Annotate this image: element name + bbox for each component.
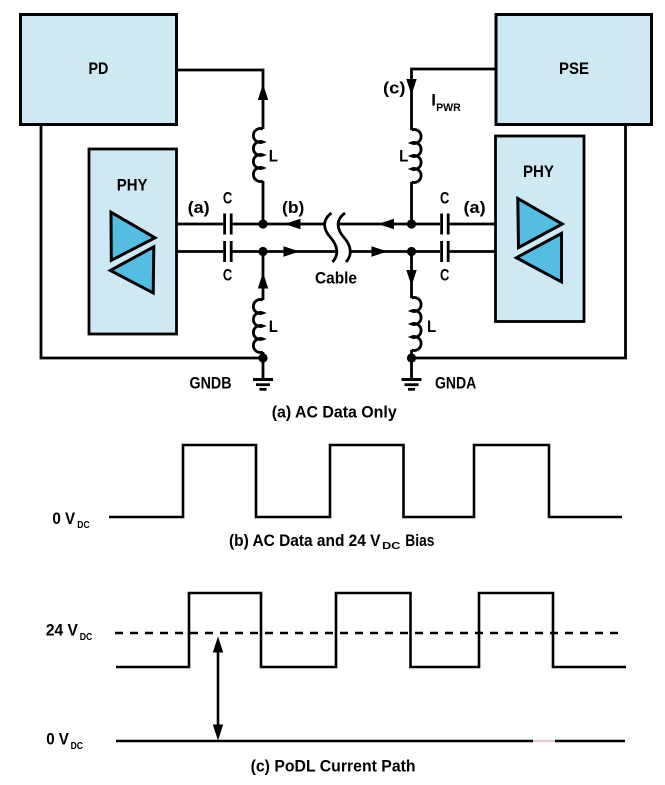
wire PD to top-left inductor — [177, 70, 264, 129]
cable break sinuous line 1 — [325, 213, 337, 262]
wire node B2 down to bottom-left inductor — [262, 252, 265, 301]
wire C4 to PHY(PSE) — [450, 250, 496, 253]
current arrow left (top right wire) — [378, 219, 394, 229]
junction node B2 — [258, 247, 267, 256]
svg-text:0 V: 0 V — [52, 509, 75, 528]
svg-text:GNDB: GNDB — [190, 374, 232, 393]
svg-text:(c): (c) — [383, 79, 406, 98]
wire PSE return loop to GNDA — [412, 125, 626, 359]
svg-text:DC: DC — [382, 540, 401, 552]
svg-text:L: L — [399, 147, 408, 166]
current arrow right (bottom right wire) — [372, 246, 388, 256]
svg-text:L: L — [269, 317, 278, 336]
svg-text:DC: DC — [80, 631, 93, 643]
svg-text:C: C — [223, 189, 232, 208]
waveform c: biased square wave trace — [116, 593, 626, 667]
capacitor C3 (PSE top data) — [442, 214, 449, 235]
waveform c: 0 VDC baseline — [116, 740, 625, 743]
wire cable to capacitor C3 (top data line right) — [338, 223, 441, 226]
svg-text:(b) AC Data and 24 V: (b) AC Data and 24 V — [229, 531, 381, 550]
svg-text:(a): (a) — [464, 198, 486, 217]
svg-text:PWR: PWR — [436, 102, 461, 114]
dimension arrow 24V bias (double headed) — [213, 637, 223, 741]
wire PD return loop to GNDB — [41, 125, 263, 358]
block PHY (PSE side) — [496, 136, 585, 322]
buffer triangle (PSE PHY, receive) — [516, 233, 561, 282]
ground GNDB — [253, 358, 273, 389]
junction node GNDB — [258, 353, 267, 362]
wire node A2 down to bottom-right inductor — [410, 252, 413, 299]
wire PSE to top-right inductor — [412, 69, 496, 130]
capacitor C1 (PD top data) — [225, 214, 232, 235]
svg-text:(a) AC Data Only: (a) AC Data Only — [272, 403, 397, 422]
inductor L4 (PSE bottom) — [412, 298, 422, 351]
svg-text:PD: PD — [89, 59, 109, 78]
svg-text:GNDA: GNDA — [435, 374, 476, 393]
waveform b: AC square wave trace — [109, 445, 622, 517]
svg-text:(b): (b) — [282, 198, 304, 217]
svg-text:C: C — [440, 265, 449, 284]
junction node GNDA — [407, 353, 416, 362]
wire L4 to node GNDA — [410, 350, 413, 358]
current arrow up (PD feed) — [258, 84, 268, 100]
wire C2 to cable break (bottom, through node B2) — [233, 250, 336, 253]
junction node A1 — [407, 219, 416, 228]
block PSE — [496, 15, 652, 125]
svg-text:PSE: PSE — [559, 59, 589, 78]
wire C1 to cable break (top, through node B1) — [233, 223, 324, 226]
current arrow down IPWR — [406, 79, 416, 95]
inductor L1 (PD top) — [253, 129, 263, 182]
svg-text:DC: DC — [71, 740, 84, 752]
junction node A2 — [407, 247, 416, 256]
cable break sinuous line 2 — [338, 213, 350, 262]
current arrow left (top left wire) — [285, 219, 301, 229]
wire PHY(PD) to capacitor C2 (bottom data line) — [177, 250, 224, 253]
wire L1 to node B1 — [262, 181, 265, 224]
buffer triangle (PD PHY, receive) — [110, 247, 154, 293]
svg-text:(a): (a) — [188, 198, 210, 217]
wire cable to capacitor C4 (bottom data line right) — [350, 250, 440, 253]
junction node B1 — [258, 219, 267, 228]
wire L3 to node GNDB — [262, 352, 265, 358]
svg-text:L: L — [269, 147, 278, 166]
wire C3 to PHY(PSE) — [450, 223, 496, 226]
current arrow right (bottom left wire) — [284, 246, 300, 256]
svg-text:Cable: Cable — [315, 268, 357, 287]
block PHY (PD side) — [89, 149, 177, 334]
svg-text:24 V: 24 V — [46, 621, 79, 640]
waveform c: 24 VDC dashed reference line — [115, 632, 621, 635]
buffer triangle (PSE PHY, transmit) — [518, 199, 562, 248]
current arrow down (to GNDA) — [406, 270, 416, 286]
buffer triangle (PD PHY, transmit) — [111, 212, 155, 260]
svg-text:0 V: 0 V — [46, 729, 69, 748]
capacitor C4 (PSE bottom data) — [442, 241, 449, 262]
svg-text:C: C — [223, 265, 232, 284]
svg-text:L: L — [427, 317, 436, 336]
current arrow up (GNDB return) — [258, 273, 268, 289]
svg-text:(c) PoDL Current Path: (c) PoDL Current Path — [251, 756, 416, 775]
block PD — [21, 15, 177, 125]
inductor L3 (PD bottom) — [253, 300, 263, 353]
svg-text:DC: DC — [77, 519, 90, 531]
ground GNDA — [402, 358, 422, 389]
svg-text:Bias: Bias — [405, 531, 434, 550]
wire L2 to node A1 — [410, 182, 413, 224]
svg-text:PHY: PHY — [523, 162, 555, 181]
svg-text:PHY: PHY — [117, 176, 148, 195]
wire PHY(PD) to capacitor C1 (top data line) — [177, 223, 224, 226]
svg-text:C: C — [440, 189, 449, 208]
inductor L2 (PSE top) — [412, 130, 422, 183]
capacitor C2 (PD bottom data) — [225, 241, 232, 262]
